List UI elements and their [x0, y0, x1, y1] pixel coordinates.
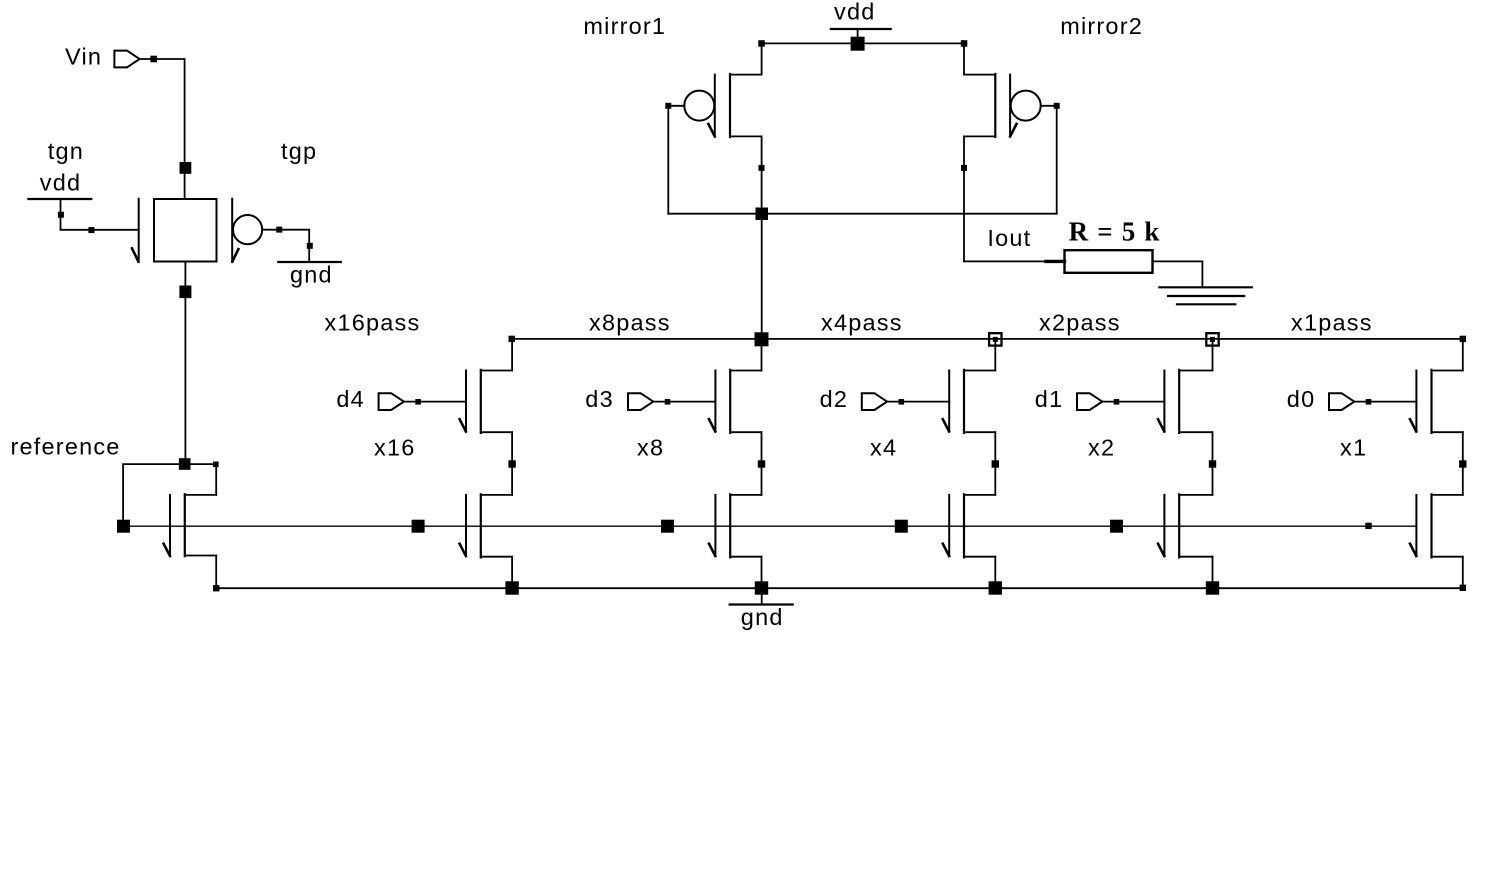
svg-text:x8: x8 — [637, 435, 664, 461]
port d3 — [628, 393, 653, 410]
wire x1pass drain — [1462, 339, 1464, 371]
port d0 — [1329, 393, 1354, 410]
transistor x1 (NMOS current source) — [1410, 494, 1463, 557]
wire x2pass source to x2 drain — [1212, 432, 1214, 495]
wire x2 source to gnd rail — [1212, 557, 1214, 589]
node x16 mid — [508, 460, 515, 467]
wire x8pass source to x8 drain — [761, 432, 763, 495]
gnd bar (tgp) — [278, 261, 341, 263]
svg-text:mirror2: mirror2 — [1060, 13, 1143, 39]
node d1 wire — [1114, 399, 1120, 405]
port d2 — [862, 393, 887, 410]
svg-text:x4: x4 — [870, 435, 897, 461]
transistor mirror1 (PMOS) — [668, 43, 761, 137]
wire x16pass drain — [511, 339, 513, 371]
transistor x2 (NMOS current source) — [1158, 494, 1213, 557]
node mirror2 source — [961, 165, 967, 171]
svg-text:x16: x16 — [374, 435, 416, 461]
tgp bubble — [233, 215, 262, 244]
node x8 on gnd rail — [755, 581, 768, 594]
node x4pass on top rail — [989, 333, 1001, 345]
wire mirror1 gate down — [667, 106, 669, 214]
node reference source on gnd rail — [213, 585, 219, 591]
wire Vin to tg — [140, 59, 185, 199]
wire mirror2 drain down to Iout — [963, 136, 965, 261]
node tgn gate wire — [88, 227, 94, 233]
transistor mirror2 (PMOS) — [964, 43, 1057, 137]
resistor R1 body — [1065, 250, 1153, 273]
wire Iout — [964, 260, 1046, 262]
svg-text:d2: d2 — [820, 386, 849, 412]
node tgp gnd stem — [307, 243, 313, 249]
node reference drain (diode connection) — [179, 458, 191, 470]
node x2pass on top rail — [1206, 333, 1218, 345]
ground symbol (Iout) — [1159, 287, 1252, 304]
node mirror1 source — [759, 165, 765, 171]
svg-text:x2pass: x2pass — [1039, 309, 1121, 335]
node mirror rail left end — [758, 40, 765, 47]
transistor x4 (NMOS current source) — [943, 494, 996, 557]
tgn gate arrow — [132, 248, 138, 261]
svg-text:d0: d0 — [1287, 386, 1316, 412]
node reference drain stub — [213, 462, 219, 468]
tgn gate line — [138, 199, 140, 262]
node vdd stem — [58, 212, 64, 218]
node d3 wire — [665, 399, 671, 405]
resistor R1 right lead — [1153, 261, 1203, 287]
vdd bar (top) — [831, 28, 891, 30]
wire tg to reference node — [184, 262, 186, 465]
wire x1pass source to x1 drain — [1462, 432, 1464, 495]
wire reference diode connection — [123, 464, 185, 526]
transistor x8pass (NMOS) — [709, 370, 762, 433]
node mirror rail right end — [961, 40, 968, 47]
wire d1 to gate — [1102, 401, 1164, 403]
port Vin — [114, 51, 139, 68]
svg-text:x16pass: x16pass — [325, 309, 421, 335]
port d1 — [1077, 393, 1102, 410]
node x8 mid — [758, 460, 765, 467]
transistor x8 (NMOS current source) — [709, 494, 762, 557]
node tg drain — [180, 162, 192, 174]
wire mirror1 source down — [761, 136, 763, 213]
wire gnd rail — [216, 587, 1463, 589]
svg-text:x1: x1 — [1340, 435, 1367, 461]
wire mirror gate bus — [668, 213, 1056, 215]
resistor R1 left lead stub — [1046, 260, 1065, 263]
svg-text:x8pass: x8pass — [589, 309, 671, 335]
svg-text:gnd: gnd — [741, 604, 784, 630]
node x2 on gnd rail — [1206, 581, 1219, 594]
node d2 wire — [899, 399, 905, 405]
wire reference node to drain — [191, 464, 217, 495]
svg-text:R = 5 k: R = 5 k — [1069, 216, 1161, 246]
transistor x4pass (NMOS) — [943, 370, 996, 433]
wire x8 source to gnd rail — [761, 557, 763, 589]
node tg source — [179, 286, 191, 299]
node x1 on gnd rail — [1460, 585, 1466, 591]
svg-text:Iout: Iout — [987, 225, 1031, 251]
node x16 on gnd rail — [505, 581, 518, 594]
svg-text:gnd: gnd — [290, 262, 333, 288]
transistor x1pass (NMOS) — [1410, 370, 1463, 433]
wire mirror2 gate down — [1056, 106, 1058, 214]
svg-text:d4: d4 — [336, 386, 365, 412]
node x4 mid — [992, 460, 999, 467]
svg-text:mirror1: mirror1 — [583, 13, 666, 39]
wire x16 source to gnd rail — [511, 557, 513, 589]
wire reference source to gnd rail — [215, 556, 217, 589]
wire x16pass source to x16 drain — [511, 432, 513, 495]
transistor reference (NMOS) — [164, 494, 217, 556]
svg-text:x2: x2 — [1088, 435, 1115, 461]
node mirror junction — [756, 208, 769, 221]
wire gate rail — [124, 525, 1417, 527]
node gate rail left corner — [117, 520, 130, 533]
svg-text:d1: d1 — [1035, 386, 1064, 412]
svg-text:tgn: tgn — [48, 138, 84, 164]
node mirror2 gate — [1054, 103, 1060, 109]
svg-text:Vin: Vin — [65, 43, 102, 69]
wire mirror junction to pass rail — [761, 214, 763, 339]
svg-text:d3: d3 — [585, 386, 614, 412]
wire pass top rail — [512, 338, 1463, 340]
wire x4 source to gnd rail — [994, 557, 996, 589]
port d4 — [379, 393, 404, 410]
wire tgp gate to gnd — [262, 230, 309, 262]
node vdd on mirror rail — [851, 37, 865, 51]
wire x4pass source to x4 drain — [994, 432, 996, 495]
node x2 mid — [1209, 460, 1216, 467]
node on Vin wire — [150, 56, 157, 63]
svg-text:reference: reference — [11, 434, 121, 460]
node x1 gate on rail — [1365, 523, 1371, 529]
tgp gate arrow — [232, 249, 238, 262]
transistor x2pass (NMOS) — [1158, 370, 1213, 433]
wire vdd to tgn gate — [61, 199, 139, 230]
vdd stem — [857, 29, 859, 43]
node x16pass on top rail — [509, 336, 515, 342]
svg-text:x4pass: x4pass — [821, 309, 903, 335]
wire d3 to gate — [653, 401, 715, 403]
node d4 wire — [415, 399, 421, 405]
wire d0 to gate — [1354, 401, 1416, 403]
wire x1 source to gnd rail — [1462, 557, 1464, 589]
node x8 gate on rail — [661, 520, 674, 533]
node x1 mid — [1459, 460, 1466, 467]
node mirror1 gate — [665, 103, 671, 109]
wire x2pass drain — [1212, 339, 1214, 371]
svg-text:x1pass: x1pass — [1291, 309, 1373, 335]
transistor x16 (NMOS current source) — [460, 494, 512, 557]
svg-text:vdd: vdd — [40, 169, 82, 195]
node x4 gate on rail — [895, 520, 908, 533]
node x16 gate on rail — [412, 520, 425, 533]
transistor x16pass (NMOS) — [460, 370, 512, 433]
wire d4 to gate — [404, 401, 466, 403]
node x4 on gnd rail — [989, 581, 1002, 594]
svg-text:vdd: vdd — [834, 0, 876, 25]
transmission gate U1 body — [154, 199, 217, 262]
wire x4pass drain — [994, 339, 996, 371]
svg-text:tgp: tgp — [281, 138, 317, 164]
vdd bar (left) — [28, 198, 91, 200]
wire d2 to gate — [887, 401, 949, 403]
ground symbol (bottom gnd) — [761, 588, 763, 603]
node tgp gate wire — [276, 227, 282, 233]
wire x8pass drain — [761, 339, 763, 371]
node x8pass on top rail — [755, 332, 769, 346]
wire mirror vdd rail — [762, 42, 965, 44]
tgp gate line — [231, 199, 233, 262]
gnd bar (bottom) — [730, 603, 793, 605]
node x1pass on top rail — [1460, 336, 1466, 342]
node d0 wire — [1366, 399, 1372, 405]
node x2 gate on rail — [1110, 520, 1123, 533]
